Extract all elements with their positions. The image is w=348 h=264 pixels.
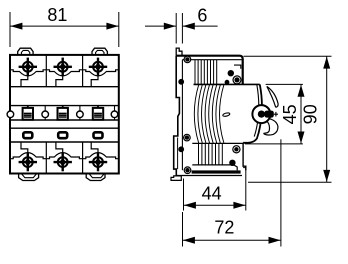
dimension 81 arrow left bbox=[10, 23, 22, 30]
dimension 81 line bbox=[10, 25, 119, 27]
side view rivet J bbox=[184, 167, 191, 174]
dimension 72 extension line right bbox=[280, 139, 282, 246]
svg-text:44: 44 bbox=[202, 184, 222, 204]
side view top clip tab bbox=[176, 48, 182, 56]
dimension 44 extension line left bbox=[183, 179, 185, 211]
pole divider bottom 2 bbox=[82, 142, 84, 174]
bottom step pole3 bbox=[91, 142, 98, 153]
toggle knob upper blade bbox=[267, 86, 278, 107]
bottom terminal seat pole3 bbox=[83, 153, 119, 159]
pivot post 4 bbox=[111, 106, 118, 120]
top terminal seat pole3 bbox=[83, 70, 119, 76]
side view top edge bbox=[176, 56, 243, 85]
pivot post 1 bbox=[7, 106, 14, 120]
dimension 72 arrow left bbox=[183, 237, 195, 244]
front view toggle band bottom line bbox=[10, 119, 119, 121]
dimension 81 extension line right bbox=[118, 12, 120, 47]
terminal screw top3 bbox=[89, 58, 107, 77]
dimension 90 line bbox=[326, 56, 328, 182]
svg-text:45: 45 bbox=[280, 104, 300, 124]
top terminal seat pole1 bbox=[10, 70, 46, 76]
side view rivet H bbox=[233, 146, 240, 153]
dimension 6 leader left bbox=[145, 25, 176, 27]
terminal screw bottom3 bbox=[89, 153, 107, 171]
terminal screw top1 bbox=[19, 58, 37, 77]
svg-text:6: 6 bbox=[197, 5, 207, 25]
terminal screw bottom1 bbox=[19, 153, 37, 171]
side view dot B bbox=[178, 79, 184, 85]
side view interior corner step bbox=[234, 65, 241, 69]
bottom terminal seat pole1 bbox=[10, 153, 46, 159]
toggle handle pole1 bbox=[23, 106, 33, 120]
pivot post 3 bbox=[77, 106, 84, 120]
side view bottom inner shelf bbox=[192, 165, 237, 171]
pole divider top 1 bbox=[45, 55, 47, 87]
toggle knob center dot bbox=[258, 111, 265, 118]
side view label slot ellipse bbox=[222, 112, 230, 117]
side view top band second line bbox=[182, 59, 241, 61]
indicator window pole1 bbox=[23, 132, 32, 138]
side view lower louvre slots bbox=[199, 143, 223, 165]
dimension 45 bottom reference line bbox=[245, 143, 303, 145]
bottom terminal seat pole2 bbox=[46, 153, 82, 159]
dimension 44 line bbox=[184, 204, 246, 206]
side view lower right profile bbox=[243, 143, 246, 171]
dimension 45 line bbox=[300, 84, 302, 143]
side view rivet D bbox=[233, 76, 241, 84]
dimension 44 arrow right bbox=[233, 202, 245, 209]
bottom foot pole3 outer bbox=[86, 174, 105, 181]
side view din clip foot bbox=[171, 176, 181, 181]
front view horizontal line y87 bbox=[10, 86, 119, 88]
bottom foot pole3 inner bbox=[89, 174, 105, 178]
dimension 90 top reference line bbox=[244, 55, 332, 57]
side view left outer profile bbox=[174, 56, 180, 176]
top step pole2 bbox=[56, 76, 63, 87]
toggle handle pole2 bbox=[58, 106, 68, 120]
top step pole1 bbox=[21, 76, 28, 87]
front view window band top line bbox=[10, 127, 119, 129]
toggle knob cross mark bbox=[274, 112, 278, 117]
dimension 6 extension line left bbox=[175, 13, 177, 44]
side view panel recess top line bbox=[194, 83, 260, 85]
dimension 44 extension line right bbox=[245, 166, 247, 210]
pole divider top 2 bbox=[82, 55, 84, 87]
side view front face inner bbox=[254, 84, 259, 136]
bottom foot pole1 inner bbox=[21, 174, 37, 178]
svg-text:81: 81 bbox=[47, 5, 67, 25]
toggle knob lower blade bbox=[264, 118, 278, 135]
dimension 6 extension line right bbox=[181, 13, 183, 44]
mounting hat pole3 inner bbox=[96, 50, 104, 55]
side view dot C bbox=[228, 70, 234, 76]
side view dot I bbox=[229, 160, 235, 166]
front view body outline bbox=[10, 55, 119, 174]
dimension 90 arrow top bbox=[323, 57, 330, 69]
toggle knob ring bbox=[252, 105, 270, 123]
mounting hat pole3 outer bbox=[92, 48, 107, 55]
side view arc fan bbox=[194, 84, 224, 143]
svg-text:90: 90 bbox=[301, 104, 321, 124]
front view window band bottom line bbox=[10, 141, 119, 143]
dimension 45 arrow top bbox=[298, 85, 305, 97]
indicator window pole3 bbox=[94, 132, 103, 138]
side view rivet A bbox=[184, 56, 191, 63]
side view bottom edge line bbox=[176, 175, 242, 177]
dimension 6 arrow left bbox=[164, 23, 176, 30]
side view rivet F bbox=[184, 134, 191, 141]
bottom step pole1 bbox=[21, 142, 28, 153]
side view bottom black bar bbox=[192, 170, 241, 173]
top terminal seat pole2 bbox=[46, 70, 82, 76]
dimension 6 leader right bbox=[183, 25, 218, 27]
front view toggle band top line bbox=[10, 105, 119, 107]
mounting hat pole1 inner bbox=[21, 50, 29, 55]
pole divider bottom 1 bbox=[45, 142, 47, 174]
toggle knob grip bar bbox=[265, 111, 274, 118]
side view upper louvre slots bbox=[195, 60, 217, 85]
terminal screw top2 bbox=[54, 58, 72, 77]
dimension 72 arrow right bbox=[269, 237, 281, 244]
side view dot E bbox=[225, 80, 230, 85]
dimension 72 line bbox=[183, 239, 281, 241]
dimension 45 arrow bottom bbox=[298, 132, 305, 144]
top step pole3 bbox=[91, 76, 98, 87]
side view dot G bbox=[178, 146, 184, 152]
dimension 6 arrow right bbox=[183, 23, 195, 30]
toggle handle pole3 bbox=[93, 106, 103, 120]
pivot post 2 bbox=[42, 106, 49, 120]
bottom step pole2 bbox=[56, 142, 63, 153]
dimension 90 arrow bottom bbox=[323, 170, 330, 182]
dimension 90 bottom reference line bbox=[248, 181, 332, 183]
bottom foot pole1 outer bbox=[19, 174, 39, 181]
side view din clip inner line bbox=[177, 138, 179, 170]
side view left inner wall line bbox=[181, 60, 183, 171]
dimension 81 arrow right bbox=[106, 23, 118, 30]
terminal screw bottom2 bbox=[54, 153, 72, 171]
mounting hat pole1 outer bbox=[18, 48, 33, 55]
svg-text:72: 72 bbox=[214, 218, 234, 238]
dimension 45 top reference line bbox=[266, 83, 303, 85]
side view lower right double line bbox=[243, 167, 246, 169]
dimension 72 extension line left bbox=[182, 212, 184, 247]
dimension 81 extension line left bbox=[9, 12, 11, 47]
indicator window pole2 bbox=[58, 132, 67, 138]
side view front face outer bbox=[243, 84, 262, 142]
side view fan bottom line bbox=[192, 142, 243, 144]
dimension 44 arrow left bbox=[184, 202, 196, 209]
